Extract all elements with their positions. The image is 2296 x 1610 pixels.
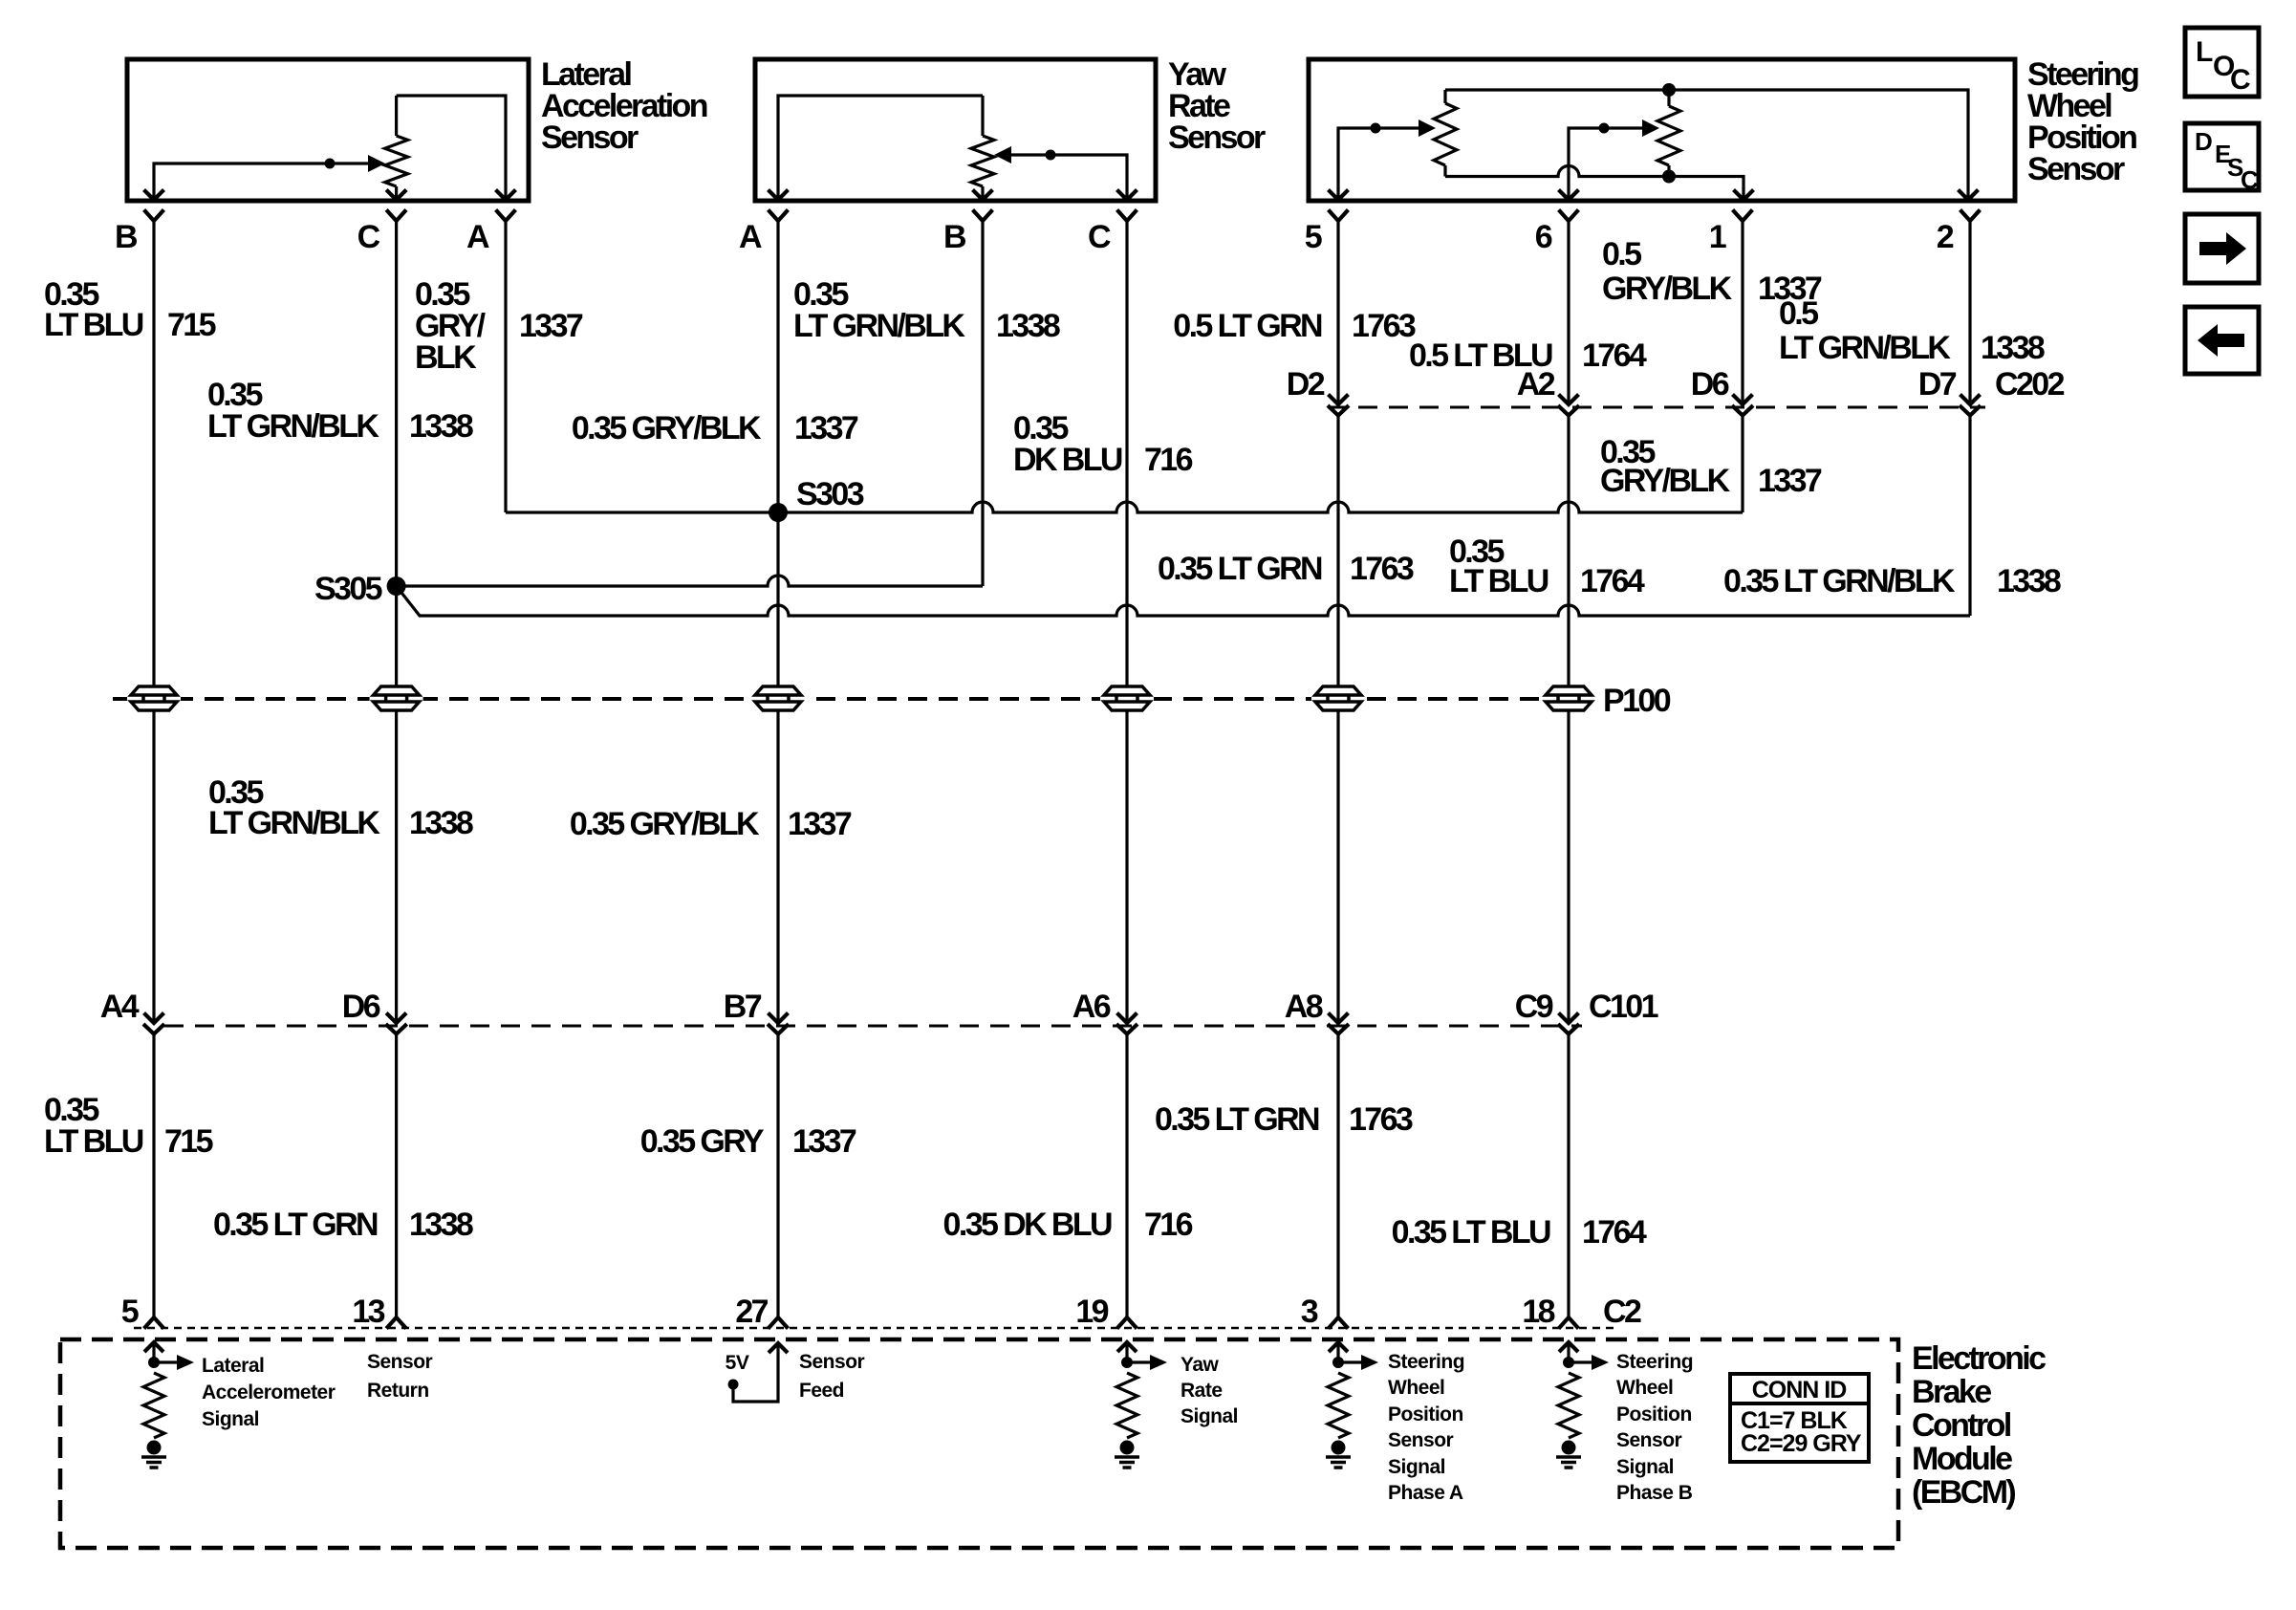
C202 pin D6 fork [1734, 407, 1752, 416]
connector label P100 [1603, 683, 1671, 719]
EBCM pin label 5 [121, 1294, 139, 1330]
wire label 0.35 GRY 1337 [640, 1123, 856, 1160]
potentiometer resistor inside yaw sensor [971, 96, 994, 199]
EBCM pin 27 fork [769, 1317, 787, 1327]
wire col yaw-A/B7 segment [776, 221, 779, 1023]
C101 pin A4 arrowhead [145, 1014, 162, 1023]
yaw rate sensor box B2 [755, 59, 1156, 201]
pin C connector fork [388, 211, 405, 221]
pin A connector fork [497, 211, 514, 221]
svg-text:3: 3 [1301, 1294, 1318, 1330]
svg-text:716: 716 [1144, 442, 1193, 478]
right arrow icon box [2185, 214, 2259, 283]
wire col yaw-C/A6 segment [1125, 221, 1128, 1023]
splice S305 junction dot [387, 577, 406, 596]
yaw sensor internal arrow to pin C [1118, 191, 1136, 200]
EBCM yaw rate signal pull-up resistor and arrow [1116, 1342, 1167, 1438]
svg-text:Accelerometer: Accelerometer [202, 1382, 336, 1403]
C101 pin A8 fork [1330, 1026, 1348, 1034]
C101 pin A4 fork [145, 1026, 163, 1034]
svg-text:1338: 1338 [996, 308, 1060, 344]
C101 pin label A8 [1285, 989, 1323, 1025]
svg-text:GRY/BLK: GRY/BLK [1602, 271, 1733, 307]
ground symbol at EBCM yaw rate resistor [1115, 1441, 1139, 1469]
wire col 5/D2 to C202 [1336, 221, 1339, 404]
EBCM pin label 3 [1301, 1294, 1318, 1330]
pin label C [1088, 219, 1111, 255]
wire label 0.35 GRY/ BLK 1337 [415, 276, 583, 376]
C202 pin D6 arrowhead [1734, 396, 1751, 404]
wire label 0.35 LT GRN/BLK 1338 [207, 377, 473, 445]
wire lateral internal top [397, 96, 506, 199]
svg-text:Sensor: Sensor [541, 120, 639, 156]
svg-text:1764: 1764 [1580, 563, 1645, 599]
EBCM dashed border box [60, 1339, 1898, 1548]
wire col yaw-B segment [981, 221, 984, 586]
C101 pin label D6 [342, 989, 380, 1025]
wire label 0.35 LT GRN/BLK 1338 [1723, 563, 2061, 599]
yaw wiper junction dot [1046, 150, 1056, 161]
wire label 0.35 LT BLU 1764 [1449, 533, 1645, 599]
svg-text:Phase A: Phase A [1388, 1482, 1463, 1504]
EBCM fine dotted connector line [134, 1327, 1615, 1330]
svg-text:1337: 1337 [794, 410, 858, 446]
wire col 3 below C101 [1336, 1034, 1339, 1318]
svg-text:0.5: 0.5 [1602, 236, 1641, 272]
P100 grommet 5 [1311, 686, 1365, 710]
wire label 0.35 DK BLU 716 [1013, 410, 1193, 478]
wire label 0.5 GRY/BLK 1337 [1602, 236, 1822, 307]
EBCM pin 19 fork [1118, 1317, 1136, 1327]
C101 pin A8 arrowhead [1330, 1014, 1347, 1023]
connector label C101 [1589, 989, 1658, 1025]
wire col 6/A2 to C202 [1567, 221, 1570, 404]
svg-text:0.35 LT BLU: 0.35 LT BLU [1392, 1214, 1550, 1251]
EBCM pin label 18 [1522, 1294, 1554, 1330]
wire lateral pin A segment [504, 221, 507, 512]
wire col A2/C9 below C202 [1567, 416, 1570, 1024]
ground symbol at EBCM lateral accelerometer resistor [141, 1441, 166, 1469]
pin 5 connector fork [1330, 211, 1347, 221]
wire label 0.5 LT GRN/BLK 1338 [1779, 295, 2045, 366]
connector P100 dashed line [113, 697, 1592, 701]
wire steering wiper A [1338, 128, 1426, 199]
steering wiper B arrowhead [1642, 120, 1659, 137]
CONN ID table [1730, 1374, 1869, 1462]
C101 pin label A4 [100, 989, 140, 1025]
wire label 0.5 LT BLU 1764 [1409, 337, 1647, 374]
svg-text:Yaw: Yaw [1180, 1354, 1220, 1376]
junction dot steering bottom rail R2 [1662, 170, 1676, 184]
pin 1 connector fork [1734, 211, 1751, 221]
svg-text:1338: 1338 [1997, 563, 2061, 599]
svg-text:1338: 1338 [1981, 330, 2045, 366]
wire col C/D6 upper segment [395, 221, 398, 1023]
svg-text:0.35 LT GRN/BLK: 0.35 LT GRN/BLK [1723, 563, 1956, 599]
steering wiper A arrowhead [1419, 120, 1436, 137]
label Lateral Accelerometer Signal [202, 1355, 336, 1430]
svg-text:LT BLU: LT BLU [44, 307, 143, 343]
svg-text:Wheel: Wheel [1616, 1377, 1673, 1399]
pin C connector fork [1118, 211, 1136, 221]
svg-text:Control: Control [1912, 1407, 2011, 1444]
steering wiper A junction dot [1371, 123, 1381, 134]
svg-text:P100: P100 [1603, 683, 1671, 719]
svg-text:LT GRN/BLK: LT GRN/BLK [1779, 330, 1951, 366]
wire lateral wiper [154, 163, 368, 199]
C202 pin label D6 [1691, 366, 1729, 402]
wire label 0.35 LT GRN/BLK 1338 [793, 276, 1060, 344]
C101 pin label A6 [1072, 989, 1111, 1025]
svg-text:LT GRN/BLK: LT GRN/BLK [793, 308, 965, 344]
label 5V [726, 1352, 749, 1374]
C101 pin label C9 [1515, 989, 1553, 1025]
svg-text:0.35 GRY/BLK: 0.35 GRY/BLK [570, 806, 760, 842]
svg-text:0.5 LT GRN: 0.5 LT GRN [1173, 308, 1322, 344]
svg-text:LT BLU: LT BLU [44, 1123, 143, 1160]
svg-text:Return: Return [367, 1380, 429, 1402]
svg-text:A6: A6 [1072, 989, 1111, 1025]
svg-text:Electronic: Electronic [1912, 1340, 2046, 1377]
svg-text:Lateral: Lateral [202, 1355, 264, 1377]
wire col 1/D6 to C202 [1741, 221, 1744, 404]
lateral sensor internal arrow to pin B [145, 191, 162, 200]
lateral wiper arrowhead [368, 155, 385, 172]
label Electronic Brake Control Module EBCM [1912, 1340, 2046, 1511]
P100 grommet 3 [751, 686, 805, 710]
svg-text:Rate: Rate [1180, 1380, 1223, 1402]
svg-text:1338: 1338 [409, 408, 473, 445]
svg-text:BLK: BLK [415, 339, 477, 376]
svg-text:A4: A4 [100, 989, 140, 1025]
yaw sensor internal arrow to pin B [974, 191, 991, 200]
svg-text:0.35 DK BLU: 0.35 DK BLU [943, 1207, 1112, 1243]
svg-text:0.35 GRY/BLK: 0.35 GRY/BLK [572, 410, 762, 446]
label Yaw Rate Signal [1180, 1354, 1238, 1427]
label Lateral Acceleration Sensor [541, 56, 707, 156]
lateral acceleration sensor box B1 [127, 59, 529, 201]
svg-text:C2=29 GRY: C2=29 GRY [1741, 1430, 1862, 1457]
wire col B/A4 upper segment [152, 221, 155, 1023]
svg-text:5V: 5V [726, 1352, 749, 1374]
wire label 0.35 LT BLU 1764 [1392, 1214, 1647, 1251]
lateral wiper junction dot [325, 159, 336, 169]
wire label 0.35 LT GRN 1763 [1158, 551, 1414, 587]
wire col D7 below C202 to 1338 rail [1968, 416, 1971, 617]
C202 pin A2 arrowhead [1560, 396, 1577, 404]
svg-text:27: 27 [735, 1294, 768, 1330]
EBCM pin label 13 [352, 1294, 384, 1330]
C101 pin C9 arrowhead [1560, 1014, 1577, 1023]
C202 pin D2 arrowhead [1330, 396, 1347, 404]
wire col 13 below C101 [395, 1034, 398, 1318]
svg-text:0.5: 0.5 [1779, 295, 1818, 332]
svg-text:6: 6 [1535, 219, 1552, 255]
yaw sensor internal arrow to pin A [769, 191, 787, 200]
svg-text:Signal: Signal [1180, 1405, 1238, 1427]
svg-text:C9: C9 [1515, 989, 1553, 1025]
svg-text:D2: D2 [1287, 366, 1325, 402]
wire label 0.35 GRY/BLK 1337 [1600, 434, 1822, 499]
P100 grommet 4 [1100, 686, 1154, 710]
svg-text:Wheel: Wheel [1388, 1377, 1444, 1399]
wire S303 horizontal run [506, 502, 1743, 512]
svg-text:DK BLU: DK BLU [1013, 442, 1122, 478]
EBCM pin 5 fork [145, 1317, 162, 1327]
svg-text:Steering: Steering [1388, 1351, 1464, 1373]
wire label 0.5 LT GRN 1763 [1173, 308, 1416, 344]
svg-text:Sensor: Sensor [367, 1351, 433, 1373]
svg-text:C: C [357, 219, 380, 255]
svg-text:Signal: Signal [202, 1408, 259, 1430]
svg-text:B: B [115, 219, 138, 255]
wire col 19 below C101 [1125, 1034, 1128, 1318]
EBCM pin label 19 [1075, 1294, 1108, 1330]
svg-text:D: D [2195, 127, 2213, 156]
EBCM 5V sensor feed circuit [728, 1343, 787, 1402]
svg-text:D6: D6 [1691, 366, 1729, 402]
svg-text:LT BLU: LT BLU [1449, 563, 1549, 599]
svg-text:1337: 1337 [1758, 463, 1822, 499]
potentiometer resistor R-A inside steering sensor [1434, 90, 1457, 177]
wire label 0.35 LT GRN 1763 [1155, 1101, 1413, 1138]
C101 pin D6 fork [387, 1026, 405, 1034]
svg-text:A8: A8 [1285, 989, 1323, 1025]
splice label S305 [314, 571, 382, 607]
C202 pin label D7 [1918, 366, 1957, 402]
svg-text:B7: B7 [724, 989, 762, 1025]
yaw wiper arrowhead [994, 146, 1011, 163]
wire label 0.35 LT GRN/BLK 1338 [208, 774, 473, 841]
svg-text:Module: Module [1912, 1441, 2012, 1477]
C101 pin B7 fork [769, 1026, 788, 1034]
wire col D2/A8 below C202 [1336, 416, 1339, 1024]
pin 2 connector fork [1961, 211, 1979, 221]
pin label 6 [1535, 219, 1552, 255]
svg-text:C: C [2230, 64, 2251, 96]
svg-text:715: 715 [167, 307, 216, 343]
C101 pin A6 fork [1118, 1026, 1137, 1034]
label Steering Wheel Position Sensor [2027, 56, 2138, 187]
connector C202 dashed line [1328, 406, 1985, 409]
pin label A [466, 219, 489, 255]
EBCM lateral accelerometer signal pull-up resistor and arrow [143, 1342, 194, 1438]
wire S305 upper branch [397, 576, 983, 586]
steering wheel position sensor box B3 [1309, 59, 2015, 201]
lateral sensor internal arrow to pin C [388, 191, 405, 200]
left arrow icon box [2185, 307, 2259, 374]
svg-text:CONN ID: CONN ID [1752, 1377, 1847, 1403]
svg-text:18: 18 [1522, 1294, 1554, 1330]
svg-text:B: B [943, 219, 966, 255]
svg-text:(EBCM): (EBCM) [1912, 1474, 2015, 1511]
svg-text:1337: 1337 [788, 806, 852, 842]
label Steering Wheel Position Sensor Signal Phase A [1388, 1351, 1464, 1504]
svg-text:C2: C2 [1603, 1294, 1641, 1330]
pin B connector fork [974, 211, 991, 221]
C202 pin label A2 [1517, 366, 1555, 402]
svg-text:1763: 1763 [1350, 551, 1414, 587]
potentiometer resistor R-B inside steering sensor [1657, 90, 1680, 177]
svg-text:Position: Position [1388, 1403, 1463, 1425]
EBCM pin 18 fork [1560, 1317, 1577, 1327]
svg-text:Sensor: Sensor [1388, 1429, 1454, 1451]
label Sensor Feed [799, 1351, 865, 1402]
wire label 0.35 GRY/BLK 1337 [570, 806, 852, 842]
svg-text:13: 13 [352, 1294, 384, 1330]
EBCM pin 3 fork [1330, 1317, 1347, 1327]
wire col D6 below C202 to S303 [1741, 416, 1744, 513]
wire S305 lower branch [397, 586, 1970, 616]
ground symbol at EBCM steering phase A resistor [1326, 1441, 1351, 1469]
svg-text:0.35 LT GRN: 0.35 LT GRN [213, 1207, 378, 1243]
C101 pin B7 arrowhead [769, 1014, 787, 1023]
wire steering internal bottom rail [1445, 166, 1744, 200]
C202 pin label D2 [1287, 366, 1325, 402]
pin label 5 [1305, 219, 1322, 255]
svg-text:L: L [2196, 36, 2213, 68]
svg-text:716: 716 [1144, 1207, 1193, 1243]
svg-text:LT GRN/BLK: LT GRN/BLK [207, 408, 379, 445]
svg-text:Sensor: Sensor [1168, 120, 1266, 156]
wire steering internal top rail [1445, 90, 1968, 199]
svg-text:C: C [2241, 165, 2259, 194]
wire label 0.35 GRY/BLK 1337 [572, 410, 858, 446]
steering internal arrow to pin 6 [1560, 191, 1577, 200]
ground symbol at EBCM steering phase B resistor [1556, 1441, 1581, 1469]
svg-text:0.5 LT BLU: 0.5 LT BLU [1409, 337, 1552, 374]
svg-text:1338: 1338 [409, 1207, 473, 1243]
steering wiper B junction dot [1599, 123, 1610, 134]
svg-text:S303: S303 [796, 476, 864, 512]
svg-text:D7: D7 [1918, 366, 1957, 402]
svg-text:19: 19 [1075, 1294, 1108, 1330]
wire label 0.35 LT GRN 1338 [213, 1207, 473, 1243]
steering internal arrow to pin 1 [1735, 191, 1752, 200]
svg-text:Position: Position [1616, 1403, 1692, 1425]
svg-text:D6: D6 [342, 989, 380, 1025]
C202 pin D2 fork [1330, 407, 1348, 416]
wire label 0.35 DK BLU 716 [943, 1207, 1193, 1243]
svg-text:Sensor: Sensor [2027, 151, 2125, 187]
svg-text:Signal: Signal [1616, 1456, 1674, 1478]
LOC icon box [2185, 28, 2259, 97]
svg-text:Signal: Signal [1388, 1456, 1445, 1478]
pin label 1 [1709, 219, 1726, 255]
C101 pin C9 fork [1560, 1026, 1578, 1034]
C101 pin label B7 [724, 989, 762, 1025]
svg-text:5: 5 [1305, 219, 1322, 255]
wire steering wiper B [1569, 128, 1650, 199]
EBCM steering phase B pull-up resistor and arrow [1558, 1342, 1609, 1438]
pin label B [943, 219, 966, 255]
svg-text:Feed: Feed [799, 1380, 844, 1402]
steering internal arrow to pin 2 [1960, 191, 1977, 200]
connector label C202 [1995, 366, 2065, 402]
svg-text:Phase B: Phase B [1616, 1482, 1693, 1504]
P100 grommet 6 [1542, 686, 1595, 710]
pin 6 connector fork [1560, 211, 1577, 221]
wire yaw internal top [778, 96, 983, 199]
wire label 0.35 LT BLU 715 [44, 1092, 213, 1160]
svg-text:C202: C202 [1995, 366, 2065, 402]
C202 pin D7 fork [1961, 407, 1980, 416]
pin label 2 [1937, 219, 1954, 255]
pin label B [115, 219, 138, 255]
lateral sensor internal arrow to pin A [497, 191, 514, 200]
svg-text:C101: C101 [1589, 989, 1658, 1025]
svg-text:1763: 1763 [1349, 1101, 1413, 1138]
svg-text:GRY/BLK: GRY/BLK [1600, 463, 1731, 499]
wire yaw wiper [1011, 155, 1127, 199]
wire col 5 below C101 [152, 1034, 155, 1318]
pin label C [357, 219, 380, 255]
label Steering Wheel Position Sensor Signal Phase B [1616, 1351, 1693, 1504]
svg-text:1: 1 [1709, 219, 1726, 255]
C202 pin A2 fork [1560, 407, 1578, 416]
P100 grommet 1 [127, 686, 181, 710]
junction dot steering top rail R2 [1662, 83, 1676, 97]
svg-text:1763: 1763 [1352, 308, 1416, 344]
svg-text:Sensor: Sensor [1616, 1429, 1682, 1451]
svg-text:A: A [739, 219, 762, 255]
svg-text:Sensor: Sensor [799, 1351, 865, 1373]
svg-text:0.35 LT GRN: 0.35 LT GRN [1158, 551, 1322, 587]
C101 pin A6 arrowhead [1118, 1014, 1136, 1023]
svg-text:C: C [1088, 219, 1111, 255]
wire label 0.35 LT BLU 715 [44, 276, 216, 343]
svg-text:LT GRN/BLK: LT GRN/BLK [208, 805, 380, 841]
svg-text:1764: 1764 [1582, 337, 1647, 374]
EBCM connector label C2 [1603, 1294, 1641, 1330]
C202 pin D7 arrowhead [1961, 396, 1979, 404]
C101 pin D6 arrowhead [388, 1014, 405, 1023]
svg-text:S305: S305 [314, 571, 382, 607]
svg-text:Brake: Brake [1912, 1374, 1991, 1410]
DESC icon box [2185, 123, 2259, 194]
pin B connector fork [145, 211, 162, 221]
svg-text:0.35 GRY: 0.35 GRY [640, 1123, 765, 1160]
connector C101 dashed line [164, 1025, 1582, 1028]
svg-text:1338: 1338 [409, 805, 473, 841]
splice S303 junction dot [769, 503, 788, 522]
EBCM steering phase A pull-up resistor and arrow [1328, 1342, 1378, 1438]
svg-text:1337: 1337 [792, 1123, 856, 1160]
EBCM pin label 27 [735, 1294, 768, 1330]
svg-text:1337: 1337 [519, 308, 583, 344]
svg-text:1764: 1764 [1582, 1214, 1647, 1251]
P100 grommet 2 [370, 686, 423, 710]
label Yaw Rate Sensor [1168, 56, 1266, 156]
svg-text:A: A [466, 219, 489, 255]
potentiometer resistor inside lateral sensor [385, 96, 408, 199]
steering internal arrow to pin 5 [1330, 191, 1347, 200]
svg-text:Steering: Steering [1616, 1351, 1693, 1373]
svg-text:0.35 LT GRN: 0.35 LT GRN [1155, 1101, 1319, 1138]
svg-text:715: 715 [164, 1123, 213, 1160]
pin label A [739, 219, 762, 255]
pin A connector fork [769, 211, 787, 221]
svg-text:5: 5 [121, 1294, 139, 1330]
wire col 2/D7 to C202 [1968, 221, 1971, 404]
wire col 18 below C101 [1567, 1034, 1570, 1318]
EBCM pin 13 fork [388, 1317, 405, 1327]
label Sensor Return [367, 1351, 433, 1402]
wire col 27 below C101 [776, 1034, 779, 1318]
splice label S303 [796, 476, 864, 512]
svg-text:2: 2 [1937, 219, 1954, 255]
